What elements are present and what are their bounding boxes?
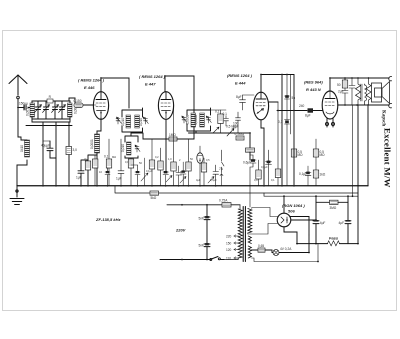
middle row: resistor box x173: [171, 106, 186, 186]
svg-text:0,0012: 0,0012: [26, 106, 30, 116]
label tube V3: [227, 73, 253, 86]
svg-text:0,010: 0,010: [139, 118, 143, 126]
coil below V1 cathode 0,0001: [90, 118, 101, 186]
middle row: resistor box x93: [93, 155, 98, 186]
wire vertical x69 to bus: [68, 122, 70, 186]
capacitor 100uuF: [233, 112, 241, 133]
svg-text:1kΩ: 1kΩ: [320, 173, 326, 177]
bottom bus with field coil: [297, 236, 358, 246]
svg-text:E 447: E 447: [145, 82, 156, 87]
rectifier heater wiring: [284, 217, 309, 244]
third bus y196: [264, 193, 358, 196]
second bus y193: [115, 186, 358, 193]
wire lower rail tuning network: [32, 117, 70, 119]
rectifier output right: [291, 219, 316, 221]
resistor box x258.5: [256, 160, 261, 186]
svg-text:0,1: 0,1: [271, 178, 275, 182]
svg-text:0,0008: 0,0008: [186, 115, 190, 125]
middle row: black capacitor x183: [181, 162, 187, 186]
texture labels middle row: [84, 155, 275, 182]
resistor 1M anode load: [145, 133, 194, 141]
middle row: electrolytic x200: [197, 146, 203, 186]
coil L1 0,0012: [26, 103, 35, 117]
wire V2 cathode down: [165, 119, 167, 171]
tube V3 E444: [253, 92, 268, 120]
wire x250 down to transformer: [249, 133, 251, 148]
rectifier tube: [277, 213, 291, 227]
grid resistor 0,1M V3: [210, 110, 226, 134]
heater return wire: [251, 244, 318, 262]
brand text: [381, 110, 393, 188]
svg-text:R 443 N: R 443 N: [306, 87, 321, 92]
svg-text:( RENS 1264 ): ( RENS 1264 ): [139, 74, 166, 79]
middle row: resistor box x152: [149, 139, 154, 186]
svg-text:MΩ: MΩ: [298, 153, 304, 157]
middle row: capacitor 1uF x121: [116, 139, 124, 186]
svg-text:1µF: 1µF: [116, 177, 122, 181]
IF transformer 1: [116, 108, 148, 132]
tube V4 R443N: [322, 91, 338, 119]
heater pins V4: [326, 118, 335, 127]
capacitor grid V3: [223, 112, 229, 126]
wires secondary to rectifier: [248, 208, 278, 235]
resistor 0,5M horizontal x247: [246, 148, 255, 160]
antenna: [9, 75, 27, 99]
wire IFT1 to tube2 grid: [131, 133, 145, 139]
black capacitor x266: [266, 150, 272, 186]
resistor box 0,5M x294: [291, 149, 303, 157]
volume pot 0,5M: [189, 125, 251, 141]
svg-text:0,6µF: 0,6µF: [261, 165, 268, 169]
svg-text:(RES 964): (RES 964): [304, 80, 323, 85]
heater resistor: [251, 244, 272, 253]
middle row: trimmer arrow x144: [141, 158, 148, 186]
wire top rail oscillator section: [32, 101, 70, 103]
svg-text:4V 0,2A: 4V 0,2A: [280, 247, 292, 251]
wire vertical x56 to bus: [55, 126, 57, 186]
speaker: [372, 82, 390, 104]
svg-text:220V: 220V: [175, 228, 186, 233]
C hook lower right: [389, 104, 392, 108]
svg-text:3MΩ: 3MΩ: [330, 206, 337, 210]
wire V4 anode to top rail: [330, 78, 389, 91]
trimmer capacitor C1: [35, 101, 42, 119]
tone switch 7A: [219, 150, 224, 186]
transformer HV secondary: [248, 209, 252, 234]
ground symbol: [10, 186, 24, 205]
wire V1 anode loop: [101, 78, 129, 108]
output transformer secondary coil: [365, 84, 367, 105]
svg-text:3,0: 3,0: [73, 148, 78, 152]
svg-text:µµF: µµF: [233, 125, 239, 129]
resistor 0,2M cathode V1: [85, 155, 97, 186]
svg-text:8µF: 8µF: [305, 114, 311, 118]
svg-text:(RGN 1064 ): (RGN 1064 ): [282, 203, 305, 208]
svg-text:0,1: 0,1: [104, 155, 109, 159]
label tube V2: [139, 74, 166, 87]
resistor 3M bleeder: [316, 200, 348, 210]
transformer primary winding: [224, 205, 242, 260]
svg-text:4µF: 4µF: [320, 221, 326, 225]
coil L0 0440 antenna coil: [20, 140, 29, 157]
middle row: black capacitor x105: [105, 168, 110, 186]
C hook top right: [389, 77, 392, 81]
output transformer core: [361, 84, 362, 101]
speaker field zigzag x368: [366, 78, 371, 105]
svg-text:240: 240: [299, 104, 305, 108]
filter cap 4uF second: [339, 196, 352, 243]
rectifier anode up to B+: [283, 196, 285, 213]
svg-text:50: 50: [337, 83, 341, 87]
middle row: resistor box x188.5: [186, 139, 191, 186]
wire rail y122: [32, 119, 70, 122]
mains line top with fuse: [167, 198, 240, 207]
cathode cap x352: [338, 78, 355, 196]
label tube V4: [304, 80, 323, 93]
svg-text:0,1MΩ: 0,1MΩ: [235, 132, 245, 136]
svg-text:2µF: 2µF: [338, 90, 344, 94]
svg-text:0,6µF: 0,6µF: [243, 161, 251, 165]
middle row: resistor box x131: [125, 158, 134, 186]
wire vertical x43 to bus: [42, 126, 44, 186]
svg-text:0,5: 0,5: [206, 158, 210, 162]
svg-text:0,0001: 0,0001: [90, 139, 94, 149]
wire V2 anode loop: [165, 76, 194, 139]
wire x368 down to bus end: [367, 105, 369, 186]
svg-text:0,0008: 0,0008: [194, 115, 198, 125]
svg-text:2µ: 2µ: [84, 157, 87, 161]
IFT1 secondary coil: [121, 136, 140, 158]
trimmer capacitor C2: [43, 101, 50, 119]
mains line bottom with switch: [160, 204, 224, 261]
mains filter caps 5nF: [199, 204, 211, 260]
wire antenna down: [18, 99, 27, 140]
dial lamp: [272, 235, 309, 256]
capacitor 0,6uF x253: [243, 152, 256, 207]
middle row: resistor box x204 with arrow: [201, 158, 214, 186]
svg-text:0,1: 0,1: [223, 112, 228, 116]
svg-text:MΩ: MΩ: [112, 155, 116, 159]
resistor box x316 lower: [313, 170, 326, 178]
svg-text:120: 120: [226, 248, 232, 252]
trimmer capacitor C4: [59, 101, 66, 119]
capacitor 0,1uF x287: [278, 75, 295, 186]
IF transformer 2: [182, 108, 212, 133]
coupling wire to V4 with capacitor: [277, 104, 323, 117]
svg-text:40µµF: 40µµF: [41, 144, 50, 148]
output transformer primary zigzag: [356, 78, 361, 105]
tube V1 E446: [93, 92, 108, 120]
middle row: resistor box x160 with black cap: [158, 148, 172, 186]
svg-text:5nF: 5nF: [199, 217, 205, 221]
svg-text:0,2: 0,2: [155, 155, 159, 159]
middle row: capacitor x215.5: [213, 165, 219, 186]
svg-text:0,010: 0,010: [121, 118, 125, 126]
trimmer capacitor C3: [52, 101, 59, 119]
svg-text:8µF: 8µF: [236, 95, 242, 99]
svg-text:0,150: 0,150: [74, 99, 82, 103]
svg-text:0,010: 0,010: [121, 144, 125, 152]
middle row: black capacitor x137: [131, 165, 140, 186]
svg-text:0,1µF: 0,1µF: [299, 172, 307, 176]
transformer core: [243, 207, 245, 262]
svg-text:(RENS 1264 ): (RENS 1264 ): [227, 73, 253, 78]
svg-text:1,0: 1,0: [168, 157, 172, 161]
wire x294 down: [293, 75, 295, 186]
svg-text:0,75A: 0,75A: [219, 198, 228, 202]
resistor 3,0 box: [66, 147, 77, 155]
capacitor 150pF antenna series: [18, 101, 31, 110]
tube V2 E447: [158, 92, 173, 120]
wire V3 anode loop: [261, 75, 294, 93]
svg-text:1MΩ: 1MΩ: [169, 133, 176, 137]
svg-text:4,0: 4,0: [254, 178, 258, 182]
svg-text:5kΩ: 5kΩ: [151, 196, 157, 200]
filter cap 4uF first: [313, 196, 325, 243]
svg-text:0,5µF: 0,5µF: [210, 178, 217, 182]
capacitor 0,1uF x308: [299, 166, 311, 186]
wire x282 down: [281, 75, 283, 186]
transformer heater secondary 1: [248, 236, 251, 244]
svg-text:Fass: Fass: [329, 236, 339, 241]
resistor box x278: [275, 102, 280, 186]
svg-text:4µF: 4µF: [196, 178, 201, 182]
label tube V1: [78, 78, 105, 91]
svg-text:4µF: 4µF: [339, 221, 345, 225]
wire L0 bottom to ground: [17, 160, 27, 186]
capacitor 40uuF padder: [41, 141, 56, 158]
choke 0,150 grid feed: [69, 98, 94, 108]
svg-text:Kapsch: Kapsch: [381, 110, 386, 126]
transformer heater secondary 2: [248, 246, 251, 258]
svg-text:MΩ: MΩ: [320, 153, 326, 157]
capacitor cathode V1: [76, 160, 88, 186]
middle row: resistor box 0,1M x109: [104, 139, 112, 186]
wire V3 cathode down: [261, 120, 264, 186]
ground bus: [17, 185, 368, 187]
svg-text:1µF: 1µF: [76, 176, 82, 180]
svg-text:150µµ: 150µµ: [19, 101, 28, 105]
label rectifier: [282, 203, 305, 214]
resistor R: [47, 95, 53, 103]
svg-text:220: 220: [226, 234, 232, 238]
svg-text:ZF-138,5 kHz: ZF-138,5 kHz: [95, 217, 120, 222]
svg-text:0,1: 0,1: [125, 160, 129, 164]
svg-text:E 444: E 444: [235, 81, 246, 86]
capacitor 8uF anode V3: [236, 95, 254, 110]
resistor 5k in bus: [150, 191, 159, 200]
svg-text:150: 150: [226, 241, 232, 245]
svg-text:E 446: E 446: [84, 85, 95, 90]
svg-text:0,65: 0,65: [258, 244, 264, 248]
cathode RC x345: [337, 78, 348, 105]
transformer taps: [226, 234, 239, 260]
svg-text:Excellent M/W: Excellent M/W: [383, 128, 393, 188]
wire output rail y105: [338, 104, 389, 106]
wire V3 grid side: [269, 101, 279, 103]
svg-text:5µ: 5µ: [292, 96, 296, 100]
svg-text:0,1µF: 0,1µF: [146, 169, 153, 173]
svg-text:0410: 0410: [20, 145, 24, 152]
wire AVC rail y125.5: [26, 122, 72, 126]
svg-text:0,1: 0,1: [278, 120, 283, 124]
resistor box x316 upper: [313, 139, 325, 186]
svg-text:506: 506: [288, 209, 295, 214]
wire x358 down: [357, 105, 359, 244]
svg-text:5nF: 5nF: [199, 244, 205, 248]
coil L2 0,0012: [68, 103, 78, 117]
